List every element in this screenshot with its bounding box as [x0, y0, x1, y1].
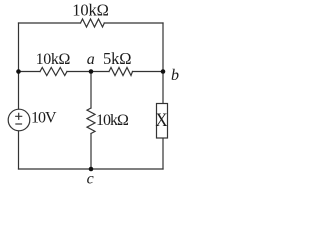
svg-text:10kΩ: 10kΩ	[72, 1, 109, 20]
svg-text:10V: 10V	[31, 110, 57, 127]
svg-text:a: a	[87, 51, 95, 68]
svg-text:X: X	[155, 109, 167, 130]
svg-text:10kΩ: 10kΩ	[96, 112, 129, 129]
svg-text:5kΩ: 5kΩ	[103, 49, 131, 68]
svg-text:b: b	[171, 67, 179, 84]
svg-text:c: c	[87, 171, 94, 188]
svg-text:10kΩ: 10kΩ	[36, 51, 71, 68]
